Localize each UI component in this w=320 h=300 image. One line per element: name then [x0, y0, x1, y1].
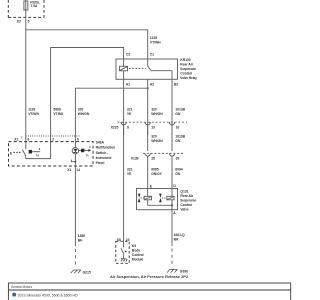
svg-text:GN: GN: [175, 112, 181, 116]
svg-text:A1: A1: [126, 82, 130, 86]
svg-text:1139: 1139: [150, 36, 157, 40]
svg-text:Rear Air: Rear Air: [180, 62, 193, 66]
svg-text:GN: GN: [175, 139, 181, 143]
svg-text:7A: 7A: [36, 154, 39, 158]
svg-text:GN/GY: GN/GY: [151, 172, 162, 176]
svg-text:C1: C1: [150, 52, 154, 56]
svg-text:8: 8: [27, 137, 29, 141]
svg-text:Panel: Panel: [96, 161, 105, 165]
svg-text:WH/GN: WH/GN: [78, 112, 90, 116]
svg-text:YE: YE: [127, 112, 132, 116]
svg-text:6: 6: [77, 137, 79, 141]
svg-text:Switch -: Switch -: [96, 151, 109, 155]
svg-text:8: 8: [127, 126, 129, 130]
svg-text:B2: B2: [174, 82, 178, 86]
svg-text:Body: Body: [132, 249, 140, 253]
svg-text:1139: 1139: [28, 107, 35, 111]
svg-text:6: 6: [28, 20, 30, 24]
svg-text:321: 321: [127, 107, 133, 111]
svg-text:Control: Control: [132, 253, 144, 257]
svg-text:VT/BU: VT/BU: [53, 112, 64, 116]
svg-text:Control: Control: [180, 203, 192, 207]
svg-text:14: 14: [76, 168, 80, 172]
svg-text:G215: G215: [83, 271, 91, 275]
svg-text:5898: 5898: [53, 107, 61, 111]
svg-text:320: 320: [151, 134, 157, 138]
svg-text:Suspension: Suspension: [180, 199, 196, 203]
svg-text:GN: GN: [175, 172, 181, 176]
svg-text:2019 Silverado 4500, 5500 & 65: 2019 Silverado 4500, 5500 & 6500 HD: [18, 293, 78, 297]
svg-text:Valve: Valve: [180, 208, 189, 212]
svg-text:C2: C2: [126, 52, 130, 56]
svg-text:320: 320: [151, 107, 157, 111]
svg-text:321: 321: [127, 167, 133, 171]
svg-text:X138: X138: [131, 157, 139, 161]
svg-text:23: 23: [126, 238, 130, 242]
svg-text:7.5A: 7.5A: [31, 4, 38, 8]
svg-text:Q131: Q131: [180, 190, 188, 194]
svg-text:1013B: 1013B: [175, 134, 185, 138]
svg-text:VT/WH: VT/WH: [28, 112, 39, 116]
svg-text:6085: 6085: [151, 167, 159, 171]
svg-text:X1: X1: [14, 137, 18, 141]
svg-text:BK: BK: [78, 239, 83, 243]
svg-text:Module: Module: [132, 258, 144, 262]
svg-text:VT/WH: VT/WH: [150, 40, 161, 44]
svg-text:4481-Q: 4481-Q: [174, 233, 185, 237]
svg-text:13: 13: [151, 126, 155, 130]
svg-text:KR100: KR100: [180, 58, 190, 62]
svg-text:2: 2: [52, 137, 54, 141]
svg-text:General Motors: General Motors: [11, 285, 32, 289]
svg-text:Rear Air: Rear Air: [180, 194, 193, 198]
svg-text:29: 29: [176, 157, 180, 161]
svg-text:K9: K9: [132, 244, 136, 248]
svg-text:28: 28: [151, 157, 155, 161]
svg-text:Control: Control: [180, 71, 192, 75]
svg-text:X225: X225: [111, 126, 119, 130]
svg-text:X1: X1: [67, 168, 71, 172]
svg-text:YE: YE: [127, 172, 132, 176]
svg-text:Valve Relay: Valve Relay: [180, 76, 197, 80]
svg-text:320: 320: [78, 107, 84, 111]
svg-text:10: 10: [176, 126, 180, 130]
svg-text:Air Suspension, Air Pressure R: Air Suspension, Air Pressure Release 2P2: [110, 275, 188, 279]
svg-text:Suspension: Suspension: [180, 67, 196, 71]
svg-text:WH/GN: WH/GN: [151, 139, 163, 143]
svg-text:A2: A2: [150, 82, 154, 86]
svg-text:X2: X2: [17, 20, 21, 24]
svg-text:Multifunction: Multifunction: [96, 146, 116, 150]
svg-text:6094: 6094: [175, 167, 183, 171]
svg-text:G390: G390: [180, 270, 188, 274]
svg-text:X5: X5: [117, 238, 121, 242]
svg-text:S48A: S48A: [96, 140, 105, 144]
svg-text:WH/GN: WH/GN: [151, 112, 163, 116]
svg-text:BK: BK: [174, 238, 179, 242]
svg-text:1013B: 1013B: [175, 107, 185, 111]
svg-text:1850: 1850: [78, 234, 86, 238]
svg-text:Instrument: Instrument: [96, 156, 113, 160]
